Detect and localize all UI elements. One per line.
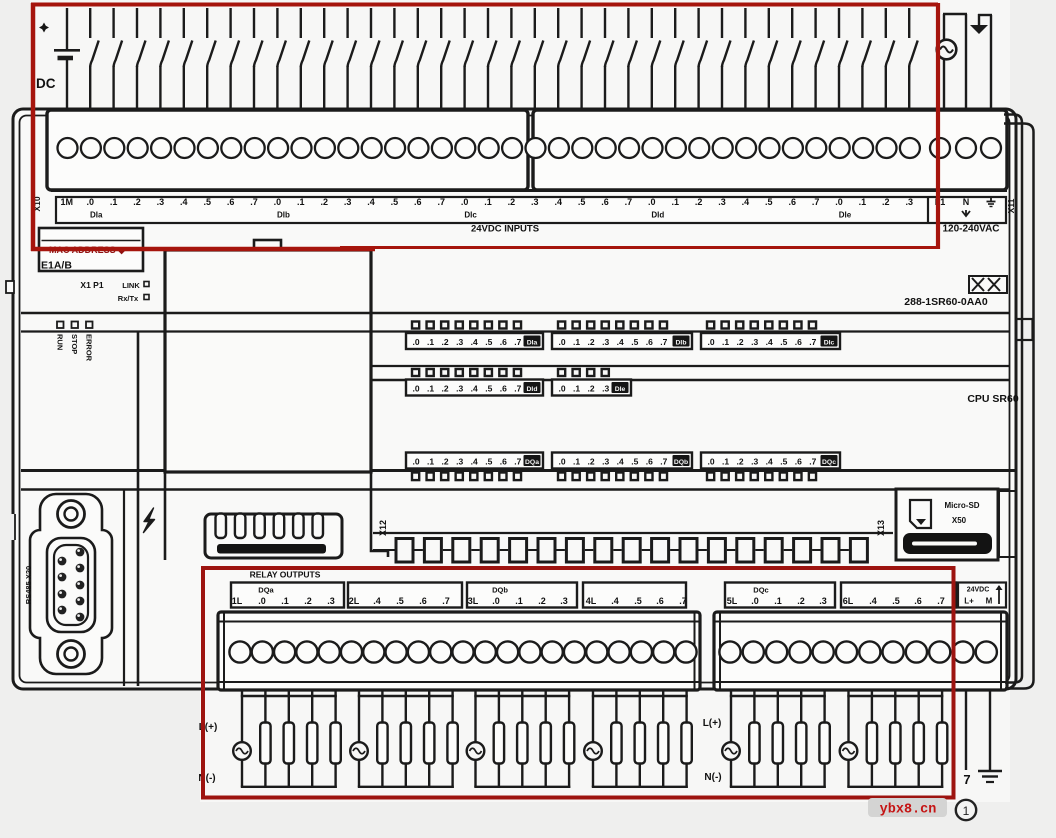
input terminal block right X11 <box>533 110 1007 190</box>
battery B1 plates <box>54 49 80 52</box>
L1/N/PE label divider <box>927 197 929 223</box>
svg-text:7: 7 <box>963 772 970 787</box>
output terminal block right <box>714 612 1007 690</box>
Micro-SD slot block <box>896 489 998 560</box>
LED RUN <box>57 322 64 329</box>
input status LEDs DIc <box>707 322 816 329</box>
svg-text:DQa: DQa <box>258 586 274 595</box>
svg-text:DQb: DQb <box>492 586 508 595</box>
DB9 pins <box>58 548 85 622</box>
svg-text:DIe: DIe <box>615 386 626 393</box>
input label box DIc <box>701 333 840 349</box>
output group label box DQb 3L <box>467 583 577 608</box>
svg-text:RELAY OUTPUTS: RELAY OUTPUTS <box>250 570 321 580</box>
output load group DQa 2L <box>350 689 458 788</box>
output label box DQb <box>552 453 692 469</box>
svg-text:X12: X12 <box>378 520 388 536</box>
battery plus sign <box>39 23 49 33</box>
svg-text:M: M <box>986 597 993 606</box>
red highlight box outputs <box>203 568 954 798</box>
svg-text:Rx/Tx: Rx/Tx <box>118 294 139 303</box>
DIN clip notch left upper <box>6 281 14 293</box>
label band top line <box>51 189 1007 192</box>
svg-text:DIc: DIc <box>824 340 835 347</box>
top terminal label box <box>56 197 1006 223</box>
svg-text:N: N <box>963 197 970 207</box>
ethernet port block <box>165 250 371 472</box>
input switches group DIb <box>277 8 449 110</box>
output group label box DQa 1L <box>231 583 344 608</box>
output terminal screws right block <box>719 641 997 662</box>
input label box DIe <box>552 380 631 396</box>
DB9 shell <box>47 538 95 632</box>
output group label box DQc 5L <box>725 583 835 608</box>
output terminal screws left block <box>229 641 696 662</box>
MAC address label plate <box>39 228 143 271</box>
input terminal block left X10 <box>47 110 528 190</box>
DIN clip notch left lower <box>4 514 15 540</box>
wire L1 <box>943 14 945 110</box>
output group label box 6L <box>841 583 956 608</box>
svg-text:DId: DId <box>527 386 538 393</box>
svg-text:DQa: DQa <box>525 459 539 466</box>
serial panel vertical divider <box>123 489 125 686</box>
input switches group DId <box>652 8 824 110</box>
wire 1M from battery <box>66 60 68 110</box>
SD block side flap <box>999 491 1016 557</box>
connector slots <box>216 514 324 539</box>
svg-text:CPU SR60: CPU SR60 <box>967 393 1019 405</box>
SD card icon <box>910 500 931 528</box>
terminal screws L1 N PE <box>930 138 1001 158</box>
svg-text:STOP: STOP <box>70 334 79 354</box>
RS485 X20 DB9 connector outline <box>30 494 112 674</box>
SD slot opening <box>903 533 992 554</box>
expansion connector block <box>205 514 342 558</box>
DB9 screw bottom <box>58 641 85 668</box>
PLC body inner outline <box>20 116 1010 683</box>
input status LEDs DId <box>412 369 521 376</box>
output status LEDs DQc <box>707 473 816 481</box>
logo box <box>969 276 1007 293</box>
red highlight box inputs : top edge <box>31 3 938 7</box>
red highlight box inputs : left edge <box>31 3 36 251</box>
module left rail <box>164 472 167 560</box>
output terminal block left <box>218 612 700 690</box>
output label box DQc <box>701 453 840 469</box>
PLC body outline <box>13 109 1016 689</box>
L1-N top link <box>943 13 967 15</box>
output load group DQc 6L <box>840 689 948 788</box>
svg-text:X50: X50 <box>952 516 967 525</box>
svg-text:LINK: LINK <box>122 281 140 290</box>
svg-text:ybx8.cn: ybx8.cn <box>880 803 937 818</box>
runner wire right B <box>1004 124 1034 689</box>
svg-text:RS485 X20: RS485 X20 <box>24 566 33 604</box>
svg-text:120-240VAC: 120-240VAC <box>942 224 999 235</box>
mid divider line <box>21 469 1016 472</box>
wire L+ sensor supply <box>965 690 967 770</box>
svg-text:DIa: DIa <box>527 340 538 347</box>
connector card edge bar <box>217 544 326 554</box>
input terminal screws left block <box>58 138 523 158</box>
wire 1M battery top <box>66 8 68 49</box>
bottom connector rail line <box>373 532 893 534</box>
input switches group DIe <box>839 8 918 110</box>
DB9 screw top <box>58 501 85 528</box>
earth ground symbol <box>978 770 1002 773</box>
svg-text:N(-): N(-) <box>198 773 215 784</box>
svg-text:1: 1 <box>963 804 970 818</box>
svg-text:N(-): N(-) <box>704 772 721 783</box>
input switches group DIc <box>465 8 637 110</box>
input terminal screws right block <box>526 138 920 158</box>
paper area bottom wiring <box>200 690 1010 802</box>
svg-text:X1 P1: X1 P1 <box>80 280 103 290</box>
svg-text:288-1SR60-0AA0: 288-1SR60-0AA0 <box>904 296 988 308</box>
wire N <box>965 14 967 110</box>
sensor supply label box 24VDC L+ M <box>958 583 1006 608</box>
svg-text:24VDC INPUTS: 24VDC INPUTS <box>471 224 539 235</box>
lightning bolt symbol <box>144 508 155 533</box>
arrow under N <box>962 210 970 216</box>
red highlight box inputs : right edge <box>936 3 940 249</box>
ethernet block top tab <box>254 240 281 250</box>
svg-text:DQb: DQb <box>674 459 688 466</box>
svg-text:X13: X13 <box>876 520 886 536</box>
input status LEDs DIa <box>412 322 521 329</box>
wire PE <box>990 15 992 110</box>
LED ERROR <box>86 322 93 329</box>
output load group DQb 3L <box>467 689 575 788</box>
circled 1 mark <box>956 800 976 820</box>
DIN clip right <box>1016 319 1033 340</box>
AC source G1 <box>937 40 957 60</box>
LED STOP <box>72 322 79 329</box>
svg-text:DC: DC <box>36 76 56 91</box>
svg-text:RUN: RUN <box>56 334 65 350</box>
wire M sensor supply <box>989 690 991 770</box>
svg-text:L+: L+ <box>964 597 974 606</box>
left panel vertical divider <box>137 332 140 686</box>
svg-text:DQc: DQc <box>822 459 836 466</box>
input status LEDs DIe <box>558 369 609 376</box>
output status LEDs DQa <box>412 473 521 481</box>
svg-text:X11: X11 <box>1006 198 1016 213</box>
input switches group DIa <box>90 8 262 110</box>
output load group DQb 4L <box>584 689 692 788</box>
watermark plate ybx8.cn <box>868 798 947 817</box>
input label box DIb <box>552 333 692 349</box>
LED strip bottom line <box>21 330 1010 332</box>
output status LEDs DQb <box>558 473 667 481</box>
DId LED band top line <box>371 365 1010 367</box>
PE symbol in label row <box>990 198 992 202</box>
output load group DQa 1L <box>233 689 341 788</box>
output load group DQc 5L <box>722 689 830 788</box>
input status LEDs DIb <box>558 322 667 329</box>
svg-text:ERROR: ERROR <box>85 334 94 362</box>
earth arrow symbol <box>978 14 980 26</box>
input label box DId <box>406 380 543 396</box>
svg-text:L(+): L(+) <box>703 718 722 729</box>
output group label box 4L <box>583 583 686 608</box>
red highlight box inputs : bottom edge <box>31 247 375 252</box>
paper area top <box>30 0 1010 110</box>
runner wire right A <box>1004 115 1022 683</box>
svg-text:E1A/B: E1A/B <box>41 260 72 272</box>
output label box DQa <box>406 453 543 469</box>
module right rail <box>371 472 388 557</box>
svg-text:DQc: DQc <box>753 586 768 595</box>
DId LED band bottom line <box>371 379 1010 382</box>
output group label box 2L <box>348 583 462 608</box>
lower divider line <box>21 488 1010 491</box>
svg-text:Micro-SD: Micro-SD <box>944 501 979 510</box>
LED strip top line <box>21 312 1010 315</box>
input label box DIa <box>406 333 543 349</box>
bottom connector clamp teeth X12/X13 <box>373 549 862 551</box>
svg-text:DIb: DIb <box>676 340 687 347</box>
svg-text:24VDC: 24VDC <box>967 587 990 594</box>
